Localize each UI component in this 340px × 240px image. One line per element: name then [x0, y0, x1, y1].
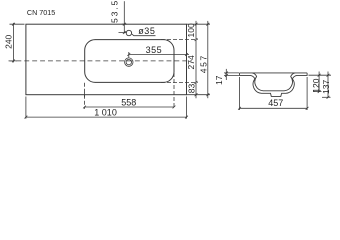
svg-text:83: 83: [186, 83, 196, 93]
dimension 120 (inner depth): [318, 72, 320, 92]
drain (double circle): [125, 58, 133, 66]
centerline (dashed horizontal axis): [9, 60, 193, 62]
basin rim (rounded rect, top view): [85, 40, 174, 83]
svg-text:ø35: ø35: [138, 26, 155, 36]
dimension 1010 (overall width): [26, 116, 187, 118]
dimension 137 (total depth): [327, 72, 329, 98]
svg-text:CN 7015: CN 7015: [27, 8, 55, 17]
dimension 53.5 (vertical, faucet hole from top edge): [123, 1, 125, 33]
dimension 240 (left side, top edge to centerline): [13, 23, 15, 63]
dashed extension (basin left edge down): [84, 83, 86, 109]
svg-text:100: 100: [186, 23, 196, 37]
dimension line B (457 overall depth): [207, 21, 209, 98]
leader line for ø35: [132, 34, 156, 36]
svg-text:53.5: 53.5: [109, 0, 119, 23]
dimension 457 (section width): [240, 77, 308, 110]
svg-text:558: 558: [121, 97, 136, 107]
svg-text:355: 355: [146, 45, 163, 55]
faucet hole circle: [126, 30, 131, 35]
svg-text:137: 137: [321, 80, 331, 94]
countertop outline (top view): [26, 24, 187, 95]
dashed extension line from basin top edge to right dims: [161, 39, 198, 41]
dashed extension line from basin bottom edge to right dims: [161, 81, 198, 83]
dashed extension (basin right edge down): [173, 73, 175, 109]
svg-text:240: 240: [3, 34, 13, 48]
svg-text:17: 17: [214, 75, 224, 85]
svg-text:457: 457: [268, 98, 283, 108]
dimension 558 (basin width): [85, 106, 175, 108]
svg-text:1 010: 1 010: [94, 108, 117, 118]
dimension 17 (rim thickness, left of section): [225, 69, 227, 80]
section inner bowl line: [252, 73, 295, 91]
section underside with bowl profile (outer): [240, 73, 308, 97]
svg-text:120: 120: [311, 78, 321, 92]
section top surface: [240, 72, 308, 74]
dimension line A (100 / 274 / 83) right of countertop: [195, 21, 197, 98]
svg-text:457: 457: [198, 54, 208, 73]
dimension 355 (drain center to right edge): [129, 54, 189, 56]
reference extension line (section top right): [309, 74, 332, 76]
svg-text:274: 274: [186, 55, 196, 69]
